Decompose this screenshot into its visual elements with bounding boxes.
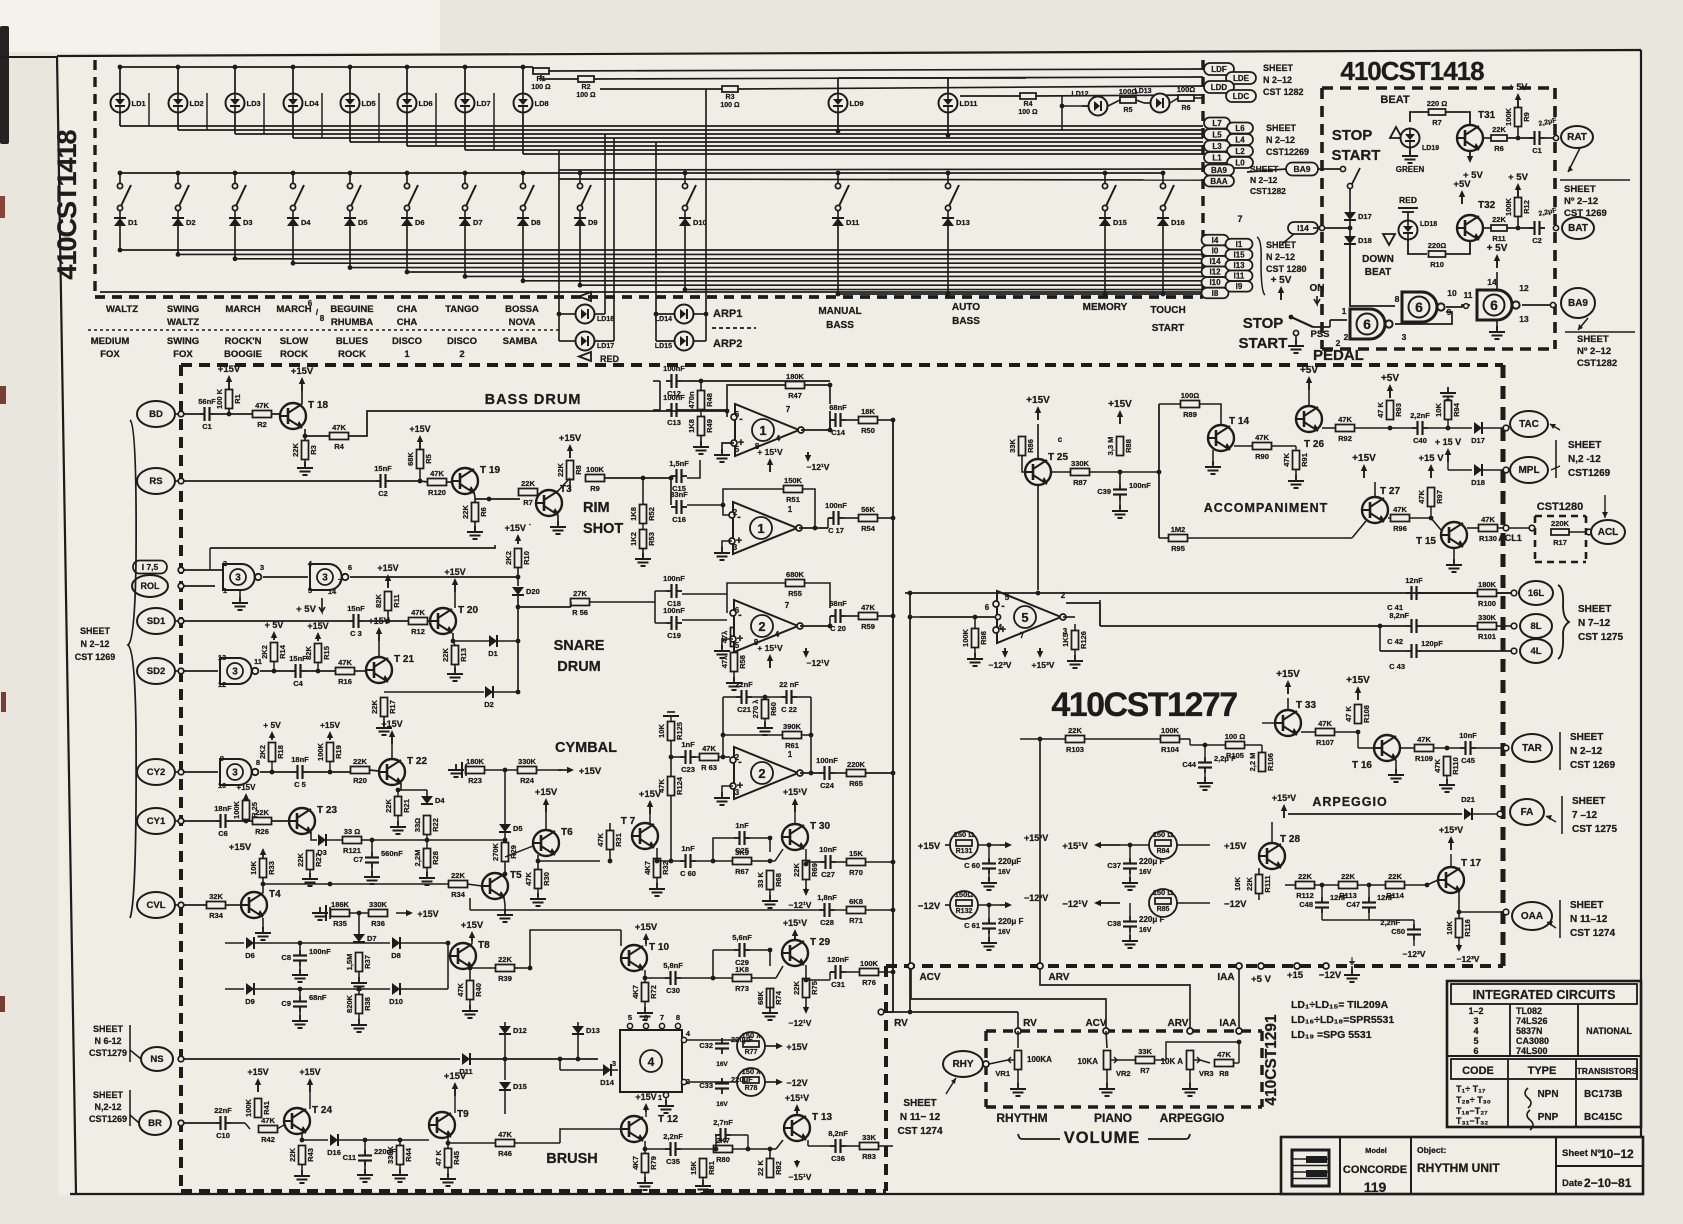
capacitor C40 xyxy=(1410,411,1430,445)
svg-text:R131: R131 xyxy=(956,848,973,855)
wire U4 to R77 xyxy=(686,1039,737,1041)
svg-text:16V: 16V xyxy=(1139,869,1152,876)
svg-text:3,3 M: 3,3 M xyxy=(1106,437,1115,456)
svg-text:3: 3 xyxy=(612,1059,616,1068)
svg-text:LDE: LDE xyxy=(1233,74,1250,83)
svg-text:10nF: 10nF xyxy=(819,845,837,854)
transistor T26 xyxy=(1296,406,1322,432)
svg-text:+15V: +15V xyxy=(918,841,941,852)
svg-text:T₁÷ T₁₇: T₁÷ T₁₇ xyxy=(1456,1084,1486,1094)
resistor R75 xyxy=(792,979,819,998)
node CY2 xyxy=(137,759,175,785)
svg-text:D3: D3 xyxy=(317,848,327,857)
svg-text:5: 5 xyxy=(735,445,740,454)
resistor R97 xyxy=(1417,488,1444,507)
power +15V R11 xyxy=(377,563,398,588)
svg-text:LD₁₉ =SPG 5531: LD₁₉ =SPG 5531 xyxy=(1291,1029,1372,1041)
svg-text:C36: C36 xyxy=(831,1154,845,1163)
svg-text:R10: R10 xyxy=(1430,260,1444,269)
svg-text:⏚: ⏚ xyxy=(1348,957,1356,966)
wire T8-T10 link xyxy=(530,930,621,968)
capacitor C12 xyxy=(663,364,685,398)
svg-text:CODE: CODE xyxy=(1462,1065,1494,1077)
svg-text:2: 2 xyxy=(735,753,740,762)
svg-text:3: 3 xyxy=(232,768,238,779)
diode D16 xyxy=(1157,218,1185,227)
svg-text:RIM: RIM xyxy=(583,500,610,516)
svg-text:32K: 32K xyxy=(209,892,223,901)
diode D5 xyxy=(344,218,368,227)
capacitor C25 xyxy=(734,821,750,855)
svg-text:C9: C9 xyxy=(281,999,291,1008)
svg-text:10: 10 xyxy=(1447,288,1457,298)
power -12'V xyxy=(805,452,811,462)
svg-text:CST 1274: CST 1274 xyxy=(1570,928,1615,939)
wire bus line xyxy=(838,293,1203,295)
svg-text:BAA: BAA xyxy=(1210,177,1228,186)
wire LED column 3 xyxy=(234,67,236,93)
wire diode drop xyxy=(684,226,686,290)
svg-text:−12V: −12V xyxy=(918,901,941,912)
svg-text:18K: 18K xyxy=(861,407,875,416)
svg-text:R71: R71 xyxy=(849,916,863,925)
wire PSS xyxy=(1313,326,1330,328)
ground below LD19 xyxy=(1409,148,1411,154)
resistor R100 xyxy=(1478,580,1497,608)
ground T15 xyxy=(1453,548,1455,562)
resistor R41 xyxy=(244,1098,271,1117)
pot VR3 xyxy=(1187,1051,1194,1070)
resistor R107 xyxy=(1316,719,1335,747)
svg-text:N 6-12: N 6-12 xyxy=(94,1036,121,1046)
svg-text:410CST1418: 410CST1418 xyxy=(1340,56,1484,86)
node ARV xyxy=(1037,963,1043,969)
svg-text:R96: R96 xyxy=(1393,524,1407,533)
svg-text:10: 10 xyxy=(218,781,226,790)
svg-text:T 13: T 13 xyxy=(812,1112,832,1123)
svg-text:LD2: LD2 xyxy=(190,99,204,108)
svg-text:R114: R114 xyxy=(1386,891,1404,900)
svg-text:R14: R14 xyxy=(278,644,287,659)
svg-text:R7: R7 xyxy=(523,498,533,507)
svg-text:BC173B: BC173B xyxy=(1584,1089,1622,1100)
svg-text:22 K: 22 K xyxy=(756,1159,765,1175)
resistor R4b xyxy=(330,423,349,451)
wire bus line xyxy=(178,129,1203,131)
svg-text:SAMBA: SAMBA xyxy=(503,336,538,347)
svg-text:100K: 100K xyxy=(1504,107,1513,126)
switch column D5 xyxy=(349,173,351,184)
svg-text:D21: D21 xyxy=(1461,795,1475,804)
ground T19 xyxy=(474,522,476,530)
resistor R5 xyxy=(1119,87,1138,103)
svg-text:R38: R38 xyxy=(363,997,372,1011)
node L3 xyxy=(1204,141,1230,152)
transistor T4 xyxy=(241,889,281,918)
svg-text:VR3: VR3 xyxy=(1199,1069,1214,1078)
wire T28 xyxy=(1283,822,1285,830)
svg-text:R113: R113 xyxy=(1339,891,1357,900)
svg-text:7: 7 xyxy=(1020,631,1025,640)
diode D7 xyxy=(358,913,360,934)
node L0 xyxy=(1227,157,1253,168)
wire T9 out xyxy=(447,1137,449,1148)
svg-text:C11: C11 xyxy=(343,1153,356,1162)
resistor R2 xyxy=(578,76,594,82)
ground R45 xyxy=(447,1168,449,1176)
svg-text:MARCH: MARCH xyxy=(276,304,311,315)
wire led loop xyxy=(378,93,380,142)
resistor R108 xyxy=(1344,705,1371,724)
svg-text:C6: C6 xyxy=(218,829,228,838)
LED LD3 xyxy=(226,94,261,113)
svg-text:5: 5 xyxy=(1005,593,1010,602)
svg-text:L4: L4 xyxy=(1235,135,1245,144)
capacitor C60p xyxy=(964,858,996,874)
wire xyxy=(715,1135,717,1149)
resistor R103 xyxy=(1066,726,1085,754)
wire xyxy=(1120,844,1149,846)
svg-text:220K: 220K xyxy=(1551,519,1570,528)
power +15V T22 xyxy=(381,719,402,744)
svg-text:TL082: TL082 xyxy=(1516,1006,1542,1016)
wire out xyxy=(846,971,860,973)
svg-text:47K: 47K xyxy=(702,744,716,753)
svg-text:C16: C16 xyxy=(672,515,686,524)
svg-text:R36: R36 xyxy=(371,919,385,928)
svg-text:TAR: TAR xyxy=(1522,743,1543,754)
svg-text:+ 15¹V: + 15¹V xyxy=(757,447,783,457)
resistor R30v xyxy=(524,870,551,889)
node I9 xyxy=(1226,281,1253,292)
svg-text:D16: D16 xyxy=(327,1148,341,1157)
ground R79 xyxy=(644,1173,646,1180)
power +5V R14 xyxy=(265,620,284,640)
svg-text:I10: I10 xyxy=(1209,278,1221,287)
wire SD1 xyxy=(184,620,348,622)
wire bus line xyxy=(523,153,1203,155)
svg-text:68K: 68K xyxy=(406,452,415,466)
svg-text:I0: I0 xyxy=(1212,246,1219,255)
svg-text:R 63: R 63 xyxy=(701,763,717,772)
svg-text:+ 5V: + 5V xyxy=(1508,172,1528,183)
wire xyxy=(1400,747,1415,749)
diode D10 xyxy=(389,983,403,1006)
svg-text:MPL: MPL xyxy=(1518,465,1539,476)
svg-text:100 Ω: 100 Ω xyxy=(1225,732,1246,741)
svg-text:3: 3 xyxy=(260,563,264,572)
resistor R63 xyxy=(700,744,719,772)
wire RV drop xyxy=(1017,1012,1019,1031)
svg-text:R82: R82 xyxy=(774,1161,783,1175)
wire T27 xyxy=(1363,482,1365,498)
wire diode drop xyxy=(177,226,179,254)
svg-text:Nº 2–12: Nº 2–12 xyxy=(1577,346,1611,357)
svg-text:C 17: C 17 xyxy=(828,526,844,535)
wire diode drop xyxy=(522,226,524,281)
resistor R98 xyxy=(961,628,988,647)
svg-text:BEGUINE: BEGUINE xyxy=(330,304,373,315)
svg-text:22K: 22K xyxy=(556,463,565,477)
svg-text:I12: I12 xyxy=(1209,268,1221,277)
wire T29 out xyxy=(805,965,807,978)
svg-text:100K: 100K xyxy=(316,742,325,761)
ground T4 xyxy=(262,918,264,930)
svg-text:100nF: 100nF xyxy=(663,364,685,373)
svg-text:4K7: 4K7 xyxy=(643,861,652,875)
resistor R6v xyxy=(461,503,488,522)
capacitor C7 xyxy=(353,849,403,868)
svg-text:R34: R34 xyxy=(451,890,466,899)
wire bus line xyxy=(120,125,1203,127)
svg-text:2,2nF: 2,2nF xyxy=(1380,918,1400,927)
node I12 xyxy=(1202,267,1229,278)
resistor R46 xyxy=(496,1130,515,1158)
wire diode drop xyxy=(234,226,236,259)
capacitor C2b xyxy=(374,464,392,498)
wire ACL1 xyxy=(1467,527,1479,529)
svg-text:D14: D14 xyxy=(600,1078,615,1087)
logo piano xyxy=(1292,1150,1329,1186)
svg-text:100nF: 100nF xyxy=(825,501,847,510)
node BAT xyxy=(1553,225,1558,230)
svg-text:74LS00: 74LS00 xyxy=(1516,1046,1548,1056)
svg-text:680K: 680K xyxy=(786,570,805,579)
svg-text:LD11: LD11 xyxy=(960,99,978,108)
svg-text:D7: D7 xyxy=(473,218,483,227)
svg-text:330K: 330K xyxy=(1071,459,1090,468)
resistor R8v xyxy=(556,461,583,480)
transistor T6 xyxy=(533,827,573,856)
svg-text:T 27: T 27 xyxy=(1380,486,1400,497)
diode D13b xyxy=(577,1022,579,1026)
svg-text:−12³V: −12³V xyxy=(1403,949,1426,959)
svg-text:10nF: 10nF xyxy=(1459,731,1477,740)
svg-text:VR1: VR1 xyxy=(995,1069,1010,1078)
LED LD9 xyxy=(829,94,864,113)
svg-text:6: 6 xyxy=(735,410,740,419)
svg-text:ON: ON xyxy=(1310,283,1325,294)
power +15V R24 xyxy=(558,769,570,771)
svg-text:R124: R124 xyxy=(675,776,684,795)
wire vertical LD16 right xyxy=(604,134,606,314)
svg-text:D1: D1 xyxy=(128,218,138,227)
svg-text:2: 2 xyxy=(459,349,464,360)
svg-text:CST1282: CST1282 xyxy=(1250,186,1286,196)
svg-text:+15V: +15V xyxy=(368,616,389,626)
svg-text:R5: R5 xyxy=(424,454,433,464)
svg-text:R10: R10 xyxy=(522,551,531,565)
node NS xyxy=(141,1047,173,1071)
power +15V R10 xyxy=(505,523,532,544)
svg-text:BD: BD xyxy=(149,409,163,420)
svg-text:R74: R74 xyxy=(774,990,783,1005)
svg-text:C1: C1 xyxy=(1532,146,1542,155)
svg-text:N 2–12: N 2–12 xyxy=(1266,252,1295,262)
wire opamp5 in xyxy=(920,616,996,618)
svg-text:TOUCH: TOUCH xyxy=(1150,305,1185,316)
svg-text:ARPEGGIO: ARPEGGIO xyxy=(1160,1111,1225,1125)
svg-text:+15V: +15V xyxy=(377,563,398,573)
wire to ACL xyxy=(1534,528,1551,532)
power -12''V out xyxy=(1000,904,1008,906)
wire LD12 net xyxy=(1062,105,1088,107)
wire out xyxy=(844,517,859,519)
svg-text:T 25: T 25 xyxy=(1048,452,1068,463)
svg-text:R60: R60 xyxy=(769,702,778,716)
node L5 xyxy=(1204,129,1230,140)
power +15V T33 xyxy=(1276,669,1300,694)
power +15V T24c xyxy=(299,1067,320,1092)
power +15'V 2a xyxy=(757,643,783,668)
capacitor C45 xyxy=(1459,731,1477,765)
svg-text:Object:: Object: xyxy=(1417,1145,1446,1155)
transistor T15 xyxy=(1441,522,1467,548)
svg-text:C8: C8 xyxy=(281,953,291,962)
wire CVL xyxy=(184,904,207,906)
node RHY xyxy=(943,1051,983,1077)
node I0 xyxy=(1202,245,1229,256)
svg-text:LD14: LD14 xyxy=(655,316,672,323)
power +5V xyxy=(1509,82,1528,107)
svg-text:1: 1 xyxy=(223,586,227,595)
wire LED column 6 xyxy=(406,67,408,93)
svg-text:1K2: 1K2 xyxy=(629,532,638,546)
power +15V R108 xyxy=(1346,675,1370,700)
svg-text:D9: D9 xyxy=(245,997,255,1006)
svg-text:N 11–12: N 11–12 xyxy=(1570,914,1608,925)
marker triangle beat xyxy=(1390,127,1402,138)
svg-text:1K8: 1K8 xyxy=(735,965,749,974)
svg-text:22K: 22K xyxy=(1388,872,1402,881)
wire opamp1a in xyxy=(682,409,727,411)
capacitor C1b xyxy=(198,397,216,431)
resistor R106 xyxy=(1248,753,1275,772)
wire xyxy=(349,912,369,914)
svg-text:T 7: T 7 xyxy=(621,816,636,827)
wire opamp2b out xyxy=(800,772,820,774)
capacitor C20 xyxy=(829,599,847,633)
svg-text:SWING: SWING xyxy=(167,336,199,347)
svg-text:100 Ω: 100 Ω xyxy=(720,102,740,109)
svg-text:N 2–12: N 2–12 xyxy=(80,639,109,649)
svg-text:100K: 100K xyxy=(232,800,241,819)
capacitor C21 xyxy=(735,680,753,714)
ground R49 xyxy=(700,436,702,444)
transistor T32 xyxy=(1457,215,1483,241)
svg-text:2: 2 xyxy=(1344,332,1349,342)
resistor R71 xyxy=(847,897,866,925)
svg-text:R58: R58 xyxy=(738,655,747,669)
svg-text:R53: R53 xyxy=(647,532,656,546)
wire ARV drop xyxy=(1040,969,1190,1031)
svg-text:T 16: T 16 xyxy=(1352,760,1372,771)
svg-text:R22: R22 xyxy=(431,818,440,832)
svg-text:100K: 100K xyxy=(244,1098,253,1117)
svg-text:1M2: 1M2 xyxy=(1171,525,1186,534)
svg-text:D10: D10 xyxy=(693,218,707,227)
capacitor C42 xyxy=(1406,619,1422,633)
resistor R110 xyxy=(1433,757,1460,776)
svg-text:D8: D8 xyxy=(531,218,541,227)
wire LED column 7 xyxy=(464,67,466,93)
wire D13 top xyxy=(578,970,621,1022)
svg-text:56nF: 56nF xyxy=(198,397,216,406)
svg-text:R77: R77 xyxy=(745,1049,758,1056)
cap sym xyxy=(1398,207,1418,209)
wire bus line xyxy=(350,267,1203,269)
pot VR2 xyxy=(1106,1031,1107,1048)
ground R72 xyxy=(644,1002,646,1010)
block U4 pins xyxy=(627,1023,632,1028)
diode D3 xyxy=(311,832,317,840)
node OAA xyxy=(1512,902,1552,930)
svg-text:LD9: LD9 xyxy=(850,99,864,108)
dashed VOLUME box xyxy=(986,1029,1262,1032)
capacitor C50 xyxy=(1391,924,1421,940)
resistor R27v xyxy=(296,851,323,870)
svg-text:CST12269: CST12269 xyxy=(1266,147,1309,157)
svg-text:RHYTHM: RHYTHM xyxy=(996,1111,1047,1125)
svg-text:2K2: 2K2 xyxy=(504,551,513,565)
capacitor C22 xyxy=(779,680,799,714)
svg-text:10−12: 10−12 xyxy=(1600,1147,1634,1161)
svg-text:R11: R11 xyxy=(1492,234,1505,243)
node L6 xyxy=(1227,123,1253,134)
node 4L xyxy=(1511,648,1517,654)
resistor R88 xyxy=(1106,437,1133,456)
wire C30 out xyxy=(681,977,740,979)
svg-text:C14: C14 xyxy=(831,428,846,437)
resistor R11 xyxy=(1491,215,1507,243)
svg-text:−12V: −12V xyxy=(786,1078,807,1088)
dashed underline xyxy=(712,327,756,329)
wire to C60 xyxy=(679,860,681,862)
power +15'V T29 xyxy=(783,918,807,939)
svg-text:LD4: LD4 xyxy=(305,99,320,108)
svg-text:7: 7 xyxy=(338,577,342,586)
svg-text:22K: 22K xyxy=(288,1148,297,1162)
power +5V T32 xyxy=(1453,179,1471,204)
marker triangle red xyxy=(579,352,591,361)
svg-text:D2: D2 xyxy=(186,218,196,227)
svg-text:R35: R35 xyxy=(333,919,347,928)
svg-text:CST 1269: CST 1269 xyxy=(1570,760,1615,771)
node I10 xyxy=(1202,277,1229,288)
wire switch rail xyxy=(120,172,1163,174)
resistor R69 xyxy=(792,861,819,880)
LED LD4 xyxy=(284,94,320,113)
svg-text:+15³V: +15³V xyxy=(1439,825,1463,835)
node I4 xyxy=(1202,235,1229,246)
wire led loop xyxy=(148,93,150,126)
resistor R81 xyxy=(689,1159,716,1178)
svg-text:L1: L1 xyxy=(1212,153,1222,162)
wire output bus to RV xyxy=(884,972,893,1012)
resistor R50 xyxy=(859,407,878,435)
svg-text:WALTZ: WALTZ xyxy=(167,317,199,328)
wire xyxy=(1301,731,1316,733)
svg-text:+15V: +15V xyxy=(1224,841,1247,852)
svg-text:T5: T5 xyxy=(510,870,522,881)
opamp U2a xyxy=(730,600,803,652)
resistor R94 xyxy=(1434,401,1461,420)
svg-text:R24: R24 xyxy=(520,776,535,785)
resistor R95 xyxy=(1169,525,1188,553)
node RS xyxy=(137,468,175,494)
wire C15 out xyxy=(687,460,700,478)
ground T18 xyxy=(304,429,306,441)
